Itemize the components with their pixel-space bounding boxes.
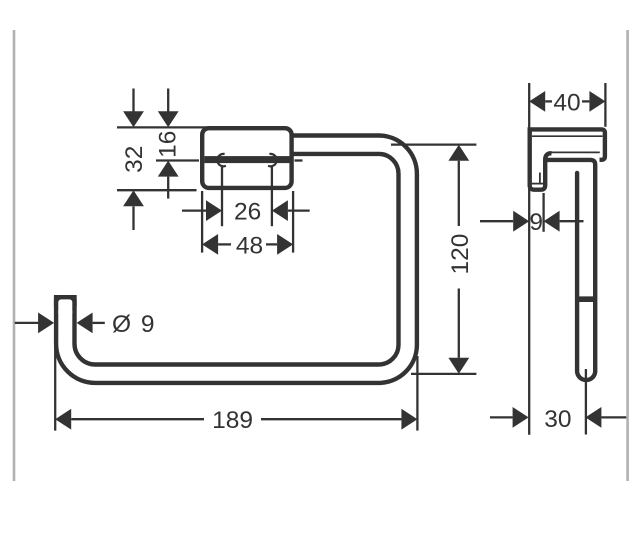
- svg-text:32: 32: [121, 146, 148, 173]
- svg-text:16: 16: [155, 131, 182, 158]
- svg-text:40: 40: [553, 89, 580, 116]
- svg-text:30: 30: [544, 406, 571, 433]
- svg-text:189: 189: [212, 407, 253, 434]
- svg-text:26: 26: [234, 199, 261, 226]
- svg-text:120: 120: [447, 234, 474, 275]
- svg-text:9: 9: [529, 209, 543, 236]
- svg-text:48: 48: [236, 232, 263, 259]
- svg-text:Ø 9: Ø 9: [112, 311, 156, 338]
